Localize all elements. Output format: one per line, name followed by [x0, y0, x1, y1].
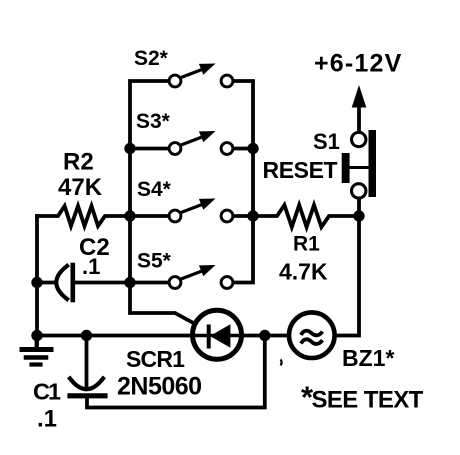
- svg-text:S5*: S5*: [137, 250, 172, 273]
- svg-text:BZ1*: BZ1*: [342, 345, 394, 371]
- svg-text:*SEE TEXT: *SEE TEXT: [301, 380, 424, 415]
- svg-text:47K: 47K: [58, 174, 103, 201]
- svg-text:S4*: S4*: [137, 178, 172, 201]
- svg-text:S1: S1: [313, 129, 340, 154]
- svg-text:S3*: S3*: [136, 110, 171, 133]
- svg-text:R2: R2: [63, 149, 94, 176]
- svg-text:C1: C1: [33, 379, 61, 405]
- svg-text:S2*: S2*: [134, 47, 169, 70]
- svg-text:RESET: RESET: [263, 157, 338, 183]
- svg-text:+6-12V: +6-12V: [314, 50, 403, 78]
- svg-text:SCR1: SCR1: [126, 346, 185, 372]
- svg-text:.1: .1: [82, 254, 100, 279]
- svg-text:4.7K: 4.7K: [279, 259, 328, 285]
- svg-text:R1: R1: [293, 233, 320, 256]
- svg-text:.1: .1: [37, 406, 57, 433]
- svg-text:2N5060: 2N5060: [117, 373, 202, 401]
